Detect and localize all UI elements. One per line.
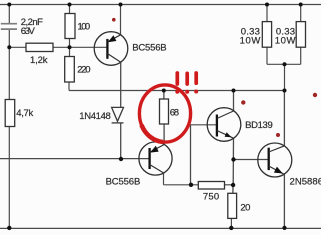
svg-text:750: 750	[203, 192, 219, 203]
svg-text:BD139: BD139	[245, 120, 273, 131]
svg-text:2N5886: 2N5886	[290, 177, 321, 188]
svg-text:10W: 10W	[275, 36, 296, 47]
svg-text:BC556B: BC556B	[106, 177, 141, 188]
svg-text:63V: 63V	[21, 26, 36, 37]
svg-text:20: 20	[240, 203, 250, 214]
svg-text:4,7k: 4,7k	[16, 108, 33, 119]
svg-text:10W: 10W	[240, 36, 261, 47]
svg-text:1N4148: 1N4148	[79, 111, 111, 122]
svg-text:BC556B: BC556B	[132, 43, 166, 54]
svg-text:100: 100	[78, 22, 91, 33]
svg-text:68: 68	[170, 108, 179, 119]
svg-text:1,2k: 1,2k	[30, 55, 48, 66]
svg-text:220: 220	[77, 65, 90, 76]
